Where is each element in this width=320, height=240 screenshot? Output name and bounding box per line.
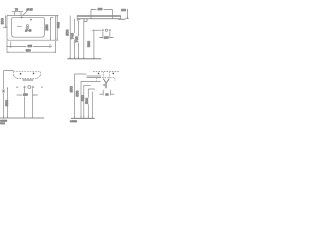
svg-text:705: 705 xyxy=(75,36,79,42)
basin right edge xyxy=(120,16,122,19)
bracket 550 xyxy=(4,71,14,119)
dim 70 ext lines xyxy=(14,12,21,16)
supply cross left xyxy=(23,86,26,89)
label 90 gap xyxy=(105,93,110,96)
ordinate line 4 xyxy=(83,21,85,59)
fixing dot right xyxy=(33,73,34,75)
label X gap xyxy=(2,89,4,93)
dim 130 arrows xyxy=(22,94,34,95)
svg-text:Ø 35: Ø 35 xyxy=(26,7,32,11)
floor arrows top-right xyxy=(70,57,95,59)
drain centre dash xyxy=(17,25,22,27)
550 top arrow xyxy=(7,87,8,89)
overflow mark xyxy=(30,19,32,20)
dim 405 arrows xyxy=(9,46,52,47)
dim 280 arrows xyxy=(91,9,112,10)
dim 300 line xyxy=(5,15,7,27)
svg-text:845610: 845610 xyxy=(70,121,78,123)
rim dashed steps xyxy=(14,76,41,79)
dim 550 line xyxy=(6,87,8,118)
basin bottom edge xyxy=(77,18,120,20)
supply ordinate corner xyxy=(93,29,94,31)
svg-text:440: 440 xyxy=(57,22,61,28)
label 530 xyxy=(83,95,86,102)
bolt lines xyxy=(91,9,112,18)
label 500 xyxy=(87,98,90,105)
label 550 xyxy=(7,100,10,107)
floor arrows bottom-left xyxy=(3,116,8,118)
ordinate line 740 xyxy=(73,19,75,59)
supply pipes xyxy=(25,89,33,118)
ordinate line 5 xyxy=(91,92,93,119)
supply cross right xyxy=(32,86,35,89)
floor arrows bottom-right xyxy=(74,117,93,119)
dim 405 line xyxy=(6,45,50,47)
fixing dot left xyxy=(20,73,21,75)
dim 440 arrows xyxy=(57,15,58,40)
dim 70 arrows xyxy=(14,11,21,12)
dim 300 ext xyxy=(3,27,8,29)
dim 440 right line xyxy=(56,15,58,40)
leader dia35 xyxy=(22,11,27,16)
dim 90 line xyxy=(99,93,114,95)
basin rim second line xyxy=(77,16,121,18)
washbasin inner bowl xyxy=(12,18,45,38)
floor line bottom-right xyxy=(71,117,95,119)
basin left bottom xyxy=(77,19,80,21)
bracket 530 xyxy=(84,85,91,118)
drain pipe xyxy=(105,83,106,88)
svg-text:280: 280 xyxy=(98,7,103,11)
underside dashed line xyxy=(96,77,115,79)
dim 550 ext lines xyxy=(7,41,56,53)
dim 280 arrows xyxy=(50,18,51,41)
svg-text:90: 90 xyxy=(105,92,109,96)
dim 280 line xyxy=(91,8,112,10)
supply line xyxy=(93,29,102,31)
fixing dot left xyxy=(98,73,99,75)
rim dashed top xyxy=(14,71,41,73)
label 705 xyxy=(77,36,80,43)
svg-text:500: 500 xyxy=(85,98,89,104)
supply circle xyxy=(105,29,107,31)
svg-text:550: 550 xyxy=(5,100,9,106)
label 850 xyxy=(67,30,70,37)
svg-text:70: 70 xyxy=(15,7,19,11)
label 130 gap xyxy=(104,36,109,39)
ordinate line 850 xyxy=(69,16,71,59)
dim 130 arrows xyxy=(101,37,112,38)
label 740 xyxy=(72,33,75,40)
supply cross left xyxy=(102,29,104,31)
svg-text:405: 405 xyxy=(27,44,32,48)
trap bump xyxy=(84,19,87,22)
dim 300 arrows xyxy=(5,15,6,27)
svg-text:100: 100 xyxy=(121,8,126,12)
dark wall piece xyxy=(118,18,125,20)
dim 130 line xyxy=(17,94,38,96)
svg-text:560: 560 xyxy=(87,41,91,47)
rim dashed bottom xyxy=(17,78,37,80)
label 280 xyxy=(97,7,104,10)
dim 405 ext lines xyxy=(11,42,50,49)
floor line bottom-left xyxy=(0,117,44,119)
svg-text:740: 740 xyxy=(71,33,75,39)
dim 90 ext lines xyxy=(103,90,110,96)
label 405 xyxy=(26,44,33,47)
svg-text:300: 300 xyxy=(1,18,5,24)
tap hole cross xyxy=(20,16,22,18)
bracket 650 xyxy=(81,81,101,118)
floor line top-right xyxy=(67,58,101,60)
supply cross right xyxy=(109,29,111,31)
svg-text:550: 550 xyxy=(26,49,31,53)
label 850 xyxy=(71,86,74,93)
ordinate line 705 xyxy=(78,21,80,59)
svg-text:X: X xyxy=(3,89,5,93)
drain circle xyxy=(28,86,31,89)
drain flange line xyxy=(23,79,34,81)
basin left edge xyxy=(76,16,78,21)
svg-text:130: 130 xyxy=(104,36,109,40)
basin top edge xyxy=(77,15,121,17)
label 560 xyxy=(89,41,92,48)
label 650 xyxy=(77,90,80,97)
dim 550 arrows xyxy=(7,52,56,53)
dim 440 ext lines xyxy=(56,15,59,40)
svg-text:280: 280 xyxy=(45,24,49,30)
dim 280 ext tick xyxy=(50,17,53,19)
washbasin outer rect xyxy=(7,15,56,40)
drain circle xyxy=(26,25,28,27)
label 130 xyxy=(23,93,29,97)
bracket 850 xyxy=(75,74,87,118)
svg-text:Ø 45: Ø 45 xyxy=(25,28,31,32)
dim 90 arrows xyxy=(101,94,112,95)
bracket 500 xyxy=(88,89,95,118)
svg-text:850: 850 xyxy=(69,86,73,92)
drain funnel xyxy=(103,79,109,83)
svg-text:850: 850 xyxy=(65,30,69,36)
rim dashed sides xyxy=(14,72,41,76)
rim dashed line xyxy=(93,71,120,73)
dim 130 line xyxy=(99,37,113,39)
dim 100 arrows xyxy=(127,9,128,19)
drain dashed verticals xyxy=(103,72,109,78)
dim 550 line xyxy=(7,51,56,53)
label 550 xyxy=(25,49,32,52)
underside side dashes xyxy=(96,78,115,81)
dim 100 ext xyxy=(125,18,129,20)
dim 70 line xyxy=(12,11,23,13)
dim 100 line xyxy=(126,9,128,19)
supply pipe lines xyxy=(87,76,101,78)
dim 130 ext lines xyxy=(103,32,110,39)
drain small circle xyxy=(104,84,105,85)
dim 280 inner line xyxy=(49,18,51,41)
supply row dashes xyxy=(16,86,43,88)
svg-text:650: 650 xyxy=(76,91,80,97)
supply ordinate line xyxy=(93,30,95,59)
fixing dot right xyxy=(113,73,114,75)
drain diamond xyxy=(26,27,29,30)
